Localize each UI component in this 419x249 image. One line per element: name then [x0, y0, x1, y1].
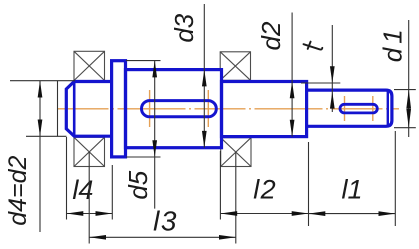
- dimension t: arrow up to shaft top: [330, 92, 335, 109]
- dimension d5: dimension line: [154, 61, 156, 209]
- svg-text:d2: d2: [256, 21, 286, 50]
- dimension l1: dimension line: [309, 213, 396, 215]
- dimension d4=d2: bottom extension line: [26, 135, 67, 137]
- dimension t: dimension line: [331, 25, 333, 112]
- axis centerline: [58, 108, 400, 110]
- svg-text:l1: l1: [341, 175, 362, 205]
- dimension l3: arrow left: [89, 235, 106, 240]
- dimension l1: arrow left: [309, 211, 326, 216]
- dimension l2: arrow left: [220, 211, 237, 216]
- shaft section d3 outline: [126, 70, 222, 148]
- dimension l2: arrow right: [292, 211, 309, 216]
- svg-text:d1: d1: [378, 25, 408, 62]
- svg-text:l3: l3: [153, 206, 178, 237]
- shaft section d1 (white fill): [307, 90, 392, 126]
- bearing B4 (right bottom, crossed square): [221, 138, 251, 167]
- dimension d4=d2: arrow down: [38, 120, 43, 137]
- shaft section d1 outline with rounded end: [307, 90, 392, 126]
- dimension d1: dimension line: [408, 20, 410, 137]
- dimension d4=d2: dimension line: [39, 81, 41, 232]
- dimension d3: dimension line: [203, 4, 205, 148]
- bearing centerline left (for l3): [88, 152, 90, 244]
- keyway K1 slot on d3: [142, 101, 217, 117]
- svg-text:l2: l2: [253, 175, 277, 205]
- dimension d2: arrow down: [290, 120, 295, 137]
- shaft section d3 (white fill): [126, 70, 222, 148]
- thin reference line at left end face: [57, 81, 59, 137]
- svg-text:d4=d2: d4=d2: [4, 155, 32, 225]
- keyway K1 centerline right arc: [207, 90, 209, 127]
- shaft section d2 (white fill): [222, 82, 307, 137]
- dimension d1: arrow up: [406, 90, 411, 109]
- dimension d2: dimension line: [291, 13, 293, 137]
- dimension d4=d2: top extension line: [10, 80, 75, 82]
- dimension d5: arrow up: [152, 61, 157, 78]
- dimension l4: dimension line: [67, 213, 113, 215]
- dimension t: arrow down to ext line: [330, 66, 335, 83]
- dimension l1: arrow right: [379, 211, 396, 216]
- keyway K2 centerline left arc: [344, 96, 346, 121]
- label t: [304, 44, 323, 49]
- dimension d3: arrow up: [202, 70, 207, 87]
- collar d5 (white fill): [112, 61, 126, 157]
- svg-text:d3: d3: [169, 13, 199, 42]
- dimension l3: arrow right: [219, 235, 236, 240]
- svg-text:d5: d5: [123, 170, 153, 199]
- dimension d3: arrow down: [202, 131, 207, 148]
- dimension d5: arrow down: [152, 140, 157, 157]
- shaft section d4 (left journal, white fill): [66, 82, 111, 137]
- dimension d1: top extension line: [394, 89, 416, 91]
- dimension l4: right extension line: [111, 165, 113, 220]
- shaft section d4 outline (left journal with chamfers): [66, 82, 111, 137]
- shaft section d2 outline: [222, 82, 307, 137]
- dimension d1: bottom extension line: [394, 127, 416, 129]
- svg-text:l4: l4: [72, 175, 93, 205]
- dimension l2: left extension line: [219, 151, 221, 220]
- dimension l2: right extension line: [308, 142, 310, 226]
- dimension d5: top extension line: [126, 60, 161, 62]
- dimension l4: arrow left: [67, 211, 84, 216]
- collar d5 outline: [112, 61, 126, 157]
- dimension d5: bottom extension line: [126, 156, 161, 158]
- dimension d1: arrow down: [406, 109, 411, 128]
- keyway K1 centerline left arc: [149, 90, 151, 127]
- bearing B3 (right top, crossed square): [220, 52, 250, 81]
- keyway K2 centerline right arc: [372, 96, 374, 121]
- bearing B1 (left top, crossed square): [74, 51, 105, 80]
- chamfer line of d4 end: [73, 82, 76, 137]
- chamfer line of d1 end: [387, 90, 389, 126]
- dimension d4=d2: arrow up: [38, 81, 43, 98]
- bearing B2 (left bottom, crossed square): [74, 137, 105, 166]
- dimension l4: arrow right: [96, 211, 113, 216]
- dimension d2: arrow up: [290, 82, 295, 99]
- dimension l3: dimension line: [89, 236, 236, 238]
- dimension l2: dimension line: [220, 213, 308, 215]
- bearing centerline right (for l3): [235, 153, 237, 244]
- dimension t: extension line: [301, 82, 340, 84]
- dimension l4: left extension line: [66, 137, 68, 220]
- keyway K2 slot on d1: [340, 104, 377, 113]
- dimension l1: right extension line: [394, 131, 396, 226]
